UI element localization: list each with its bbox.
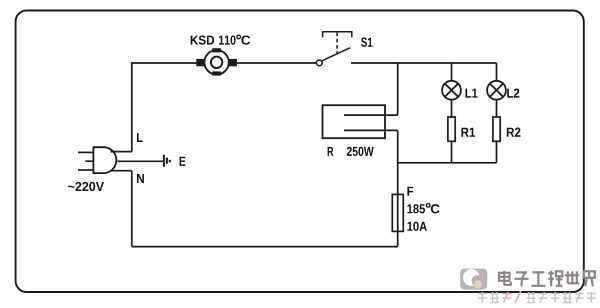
wire: lamp branch bottom rail (398, 162, 497, 164)
wire: switch to top-right rail (351, 62, 497, 64)
fuse F 185C 10A (392, 187, 439, 232)
lamp L2 (487, 63, 519, 100)
watermark text row 1 (499, 271, 595, 287)
watermark text row 2 (478, 291, 596, 303)
watermark logo (460, 269, 487, 290)
net N (137, 174, 144, 183)
wire: bottom rail (132, 246, 398, 248)
earth terminal E (118, 155, 186, 167)
lamp L1 (442, 63, 477, 100)
heating element R 250W (323, 105, 398, 156)
wire: plug to L riser (111, 151, 132, 153)
thermostat KSD 110C (191, 35, 251, 75)
power plug ~220V (68, 147, 116, 191)
switch S1 (316, 32, 372, 66)
wire: plug to N riser (111, 170, 132, 172)
net L (137, 133, 143, 142)
wire: N riser (131, 171, 133, 247)
resistor R2 (493, 100, 521, 163)
wire: drop to heater top terminal (397, 63, 399, 115)
wire: heater bottom through fuse node to bottom rail (397, 130, 399, 246)
wire: L riser and top-left corner to thermostat (132, 63, 197, 152)
resistor R1 (448, 100, 475, 163)
wire: thermostat to switch (237, 62, 316, 64)
